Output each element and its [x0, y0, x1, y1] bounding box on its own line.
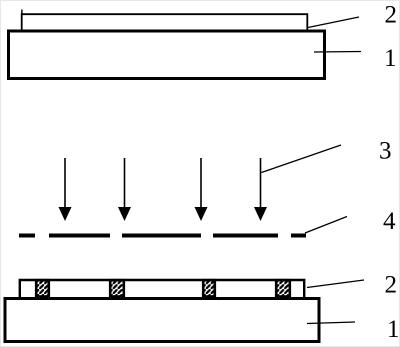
svg-text:2: 2 — [385, 272, 398, 299]
svg-text:4: 4 — [383, 208, 396, 235]
svg-text:3: 3 — [379, 138, 392, 165]
svg-text:2: 2 — [385, 2, 398, 29]
svg-text:1: 1 — [384, 45, 397, 72]
svg-text:1: 1 — [387, 316, 400, 343]
